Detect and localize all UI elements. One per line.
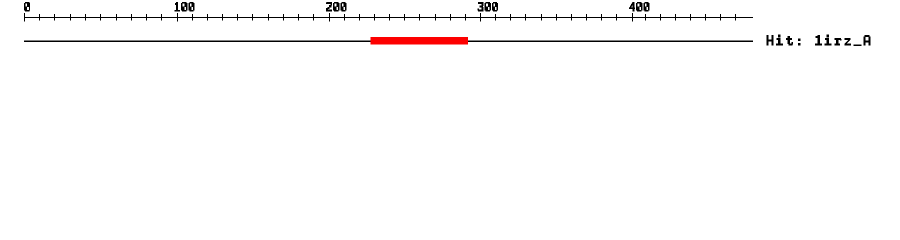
ruler label 0: [24, 2, 30, 12]
ruler minor ticks: [39, 14, 736, 21]
hit label "Hit: 1irz_A": [767, 35, 871, 46]
ruler label 300: [478, 2, 499, 12]
ruler label 100: [174, 2, 194, 12]
hit line: [24, 40, 753, 41]
ruler major ticks: [24, 13, 633, 22]
ruler label 400: [629, 2, 650, 12]
hit segment red box: [371, 37, 469, 45]
ruler axis line: [24, 17, 753, 18]
ruler label 200: [326, 2, 347, 12]
